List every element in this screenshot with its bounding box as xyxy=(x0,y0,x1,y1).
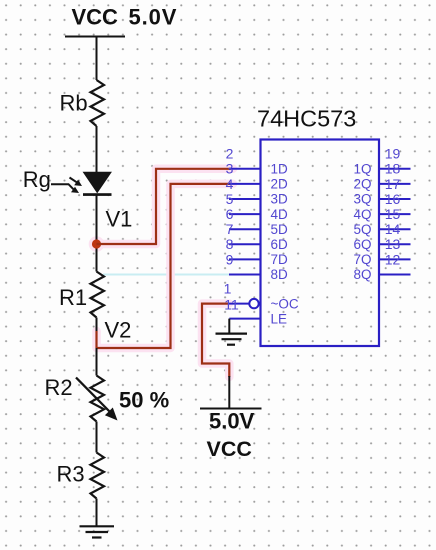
svg-text:1: 1 xyxy=(224,281,232,297)
U1 pin 9 stub (8D) xyxy=(229,274,261,276)
resistor Rb xyxy=(91,80,105,126)
highlight halo on wire net V1 xyxy=(97,169,234,244)
resistor R1 xyxy=(91,272,105,318)
svg-text:16: 16 xyxy=(385,191,401,207)
IC U1 74HC573 body xyxy=(261,140,380,347)
svg-text:2D: 2D xyxy=(271,177,289,192)
svg-text:3Q: 3Q xyxy=(353,192,371,207)
power VCC bottom symbol bar xyxy=(200,408,262,410)
svg-text:4: 4 xyxy=(226,176,234,192)
potentiometer R2 zigzag xyxy=(91,376,105,422)
wire VCC bar to Rb xyxy=(96,37,98,81)
Rg leader line xyxy=(51,184,74,189)
svg-text:5D: 5D xyxy=(271,222,289,237)
svg-text:11: 11 xyxy=(224,296,239,312)
svg-text:3: 3 xyxy=(226,161,234,177)
pending wire net to U1 pin 9 (light cyan) xyxy=(103,274,230,276)
svg-text:R1: R1 xyxy=(59,285,87,310)
svg-text:19: 19 xyxy=(385,146,401,162)
svg-text:50 %: 50 % xyxy=(119,388,169,413)
svg-text:4Q: 4Q xyxy=(353,207,371,222)
U1 pin 4 stub (3D) xyxy=(229,198,261,200)
ground at LE xyxy=(216,334,248,345)
svg-text:6Q: 6Q xyxy=(353,237,371,252)
svg-text:18: 18 xyxy=(385,161,401,177)
U1 pin 13 stub (7Q) xyxy=(379,258,411,260)
svg-text:R3: R3 xyxy=(57,461,85,486)
potentiometer R2 wiper arrow xyxy=(76,378,110,413)
svg-text:13: 13 xyxy=(385,236,401,252)
wire ~OC to VCC (red) xyxy=(202,304,229,377)
svg-text:14: 14 xyxy=(385,221,401,237)
U1 pin 17 stub (3Q) xyxy=(379,198,411,200)
wire R2 to R3 xyxy=(96,422,98,453)
resistor R3 xyxy=(91,453,105,499)
U1 ~OC bubble xyxy=(249,299,258,308)
Rg light arrow upper xyxy=(70,178,78,183)
svg-text:1D: 1D xyxy=(271,162,289,177)
svg-text:VCC: VCC xyxy=(72,5,119,30)
wire Rb to photodiode xyxy=(96,126,98,172)
wire V2 to R2 xyxy=(96,348,98,376)
svg-text:8D: 8D xyxy=(271,267,289,282)
node V1 junction dot xyxy=(92,239,101,248)
wire net V2 to U1 pin 3 (red) xyxy=(97,184,232,348)
svg-text:4D: 4D xyxy=(271,207,289,222)
U1 pin 15 stub (5Q) xyxy=(379,228,411,230)
svg-text:8Q: 8Q xyxy=(353,267,371,282)
U1 pin 18 stub (2Q) xyxy=(379,183,411,185)
U1 pin 7 stub (6D) xyxy=(229,243,261,245)
wire net V1 to U1 pin 2 (red) xyxy=(97,169,232,244)
svg-text:7: 7 xyxy=(226,221,234,237)
svg-text:R2: R2 xyxy=(45,375,73,400)
svg-text:5.0V: 5.0V xyxy=(129,5,178,30)
svg-text:6D: 6D xyxy=(271,237,289,252)
U1 pin 5 stub (4D) xyxy=(229,213,261,215)
wire photodiode to R1 through node V1 xyxy=(96,195,98,272)
svg-text:9: 9 xyxy=(226,251,234,267)
wire R1 to V2 junction (red part) xyxy=(95,331,97,348)
U1 pin 16 stub (4Q) xyxy=(379,213,411,215)
photodiode Rg cathode bar xyxy=(83,193,112,196)
svg-text:2: 2 xyxy=(226,146,234,162)
svg-text:V2: V2 xyxy=(105,317,132,342)
U1 ~OC pin stub xyxy=(229,303,249,305)
highlight halo on node V1 dot xyxy=(89,236,105,252)
svg-text:7Q: 7Q xyxy=(353,252,371,267)
svg-text:8: 8 xyxy=(226,236,234,252)
svg-text:LE: LE xyxy=(271,311,288,326)
wire to VCC bar (black) xyxy=(228,376,230,409)
svg-text:5.0V: 5.0V xyxy=(209,409,255,434)
highlight halo on wire ~OC to VCC xyxy=(202,304,229,377)
svg-text:Rb: Rb xyxy=(60,91,88,116)
U1 pin 12 stub (8Q) xyxy=(379,274,411,276)
U1 pin 19 stub (1Q) xyxy=(379,168,411,170)
svg-text:VCC: VCC xyxy=(207,437,252,461)
U1 pin 8 stub (7D) xyxy=(229,258,261,260)
svg-text:5Q: 5Q xyxy=(353,222,371,237)
power VCC top symbol bar xyxy=(65,36,125,38)
svg-text:1Q: 1Q xyxy=(353,162,371,177)
svg-text:7D: 7D xyxy=(271,252,289,267)
U1 pin 2 stub (1D) xyxy=(229,168,261,170)
svg-text:V1: V1 xyxy=(106,206,133,231)
Rg light arrow lower xyxy=(71,187,79,193)
highlight halo on wire net V2 xyxy=(97,184,234,348)
U1 LE pin stub xyxy=(229,318,260,320)
wire R1 to V2 junction (black part) xyxy=(96,318,98,333)
svg-text:74HC573: 74HC573 xyxy=(257,106,356,132)
U1 pin 3 stub (2D) xyxy=(229,183,261,185)
svg-text:17: 17 xyxy=(385,176,401,192)
svg-text:2Q: 2Q xyxy=(353,177,371,192)
ground main xyxy=(80,526,115,537)
svg-text:Rg: Rg xyxy=(23,167,51,192)
wire LE to ground stem xyxy=(228,319,230,334)
svg-text:5: 5 xyxy=(226,191,234,207)
svg-text:~OC: ~OC xyxy=(271,296,299,311)
photodiode Rg triangle xyxy=(84,172,112,192)
svg-text:6: 6 xyxy=(226,206,234,222)
svg-text:12: 12 xyxy=(385,251,401,267)
svg-text:15: 15 xyxy=(385,206,401,222)
U1 pin 6 stub (5D) xyxy=(229,228,261,230)
svg-text:3D: 3D xyxy=(271,192,289,207)
U1 pin 14 stub (6Q) xyxy=(379,243,411,245)
wire R3 to ground xyxy=(96,499,98,527)
